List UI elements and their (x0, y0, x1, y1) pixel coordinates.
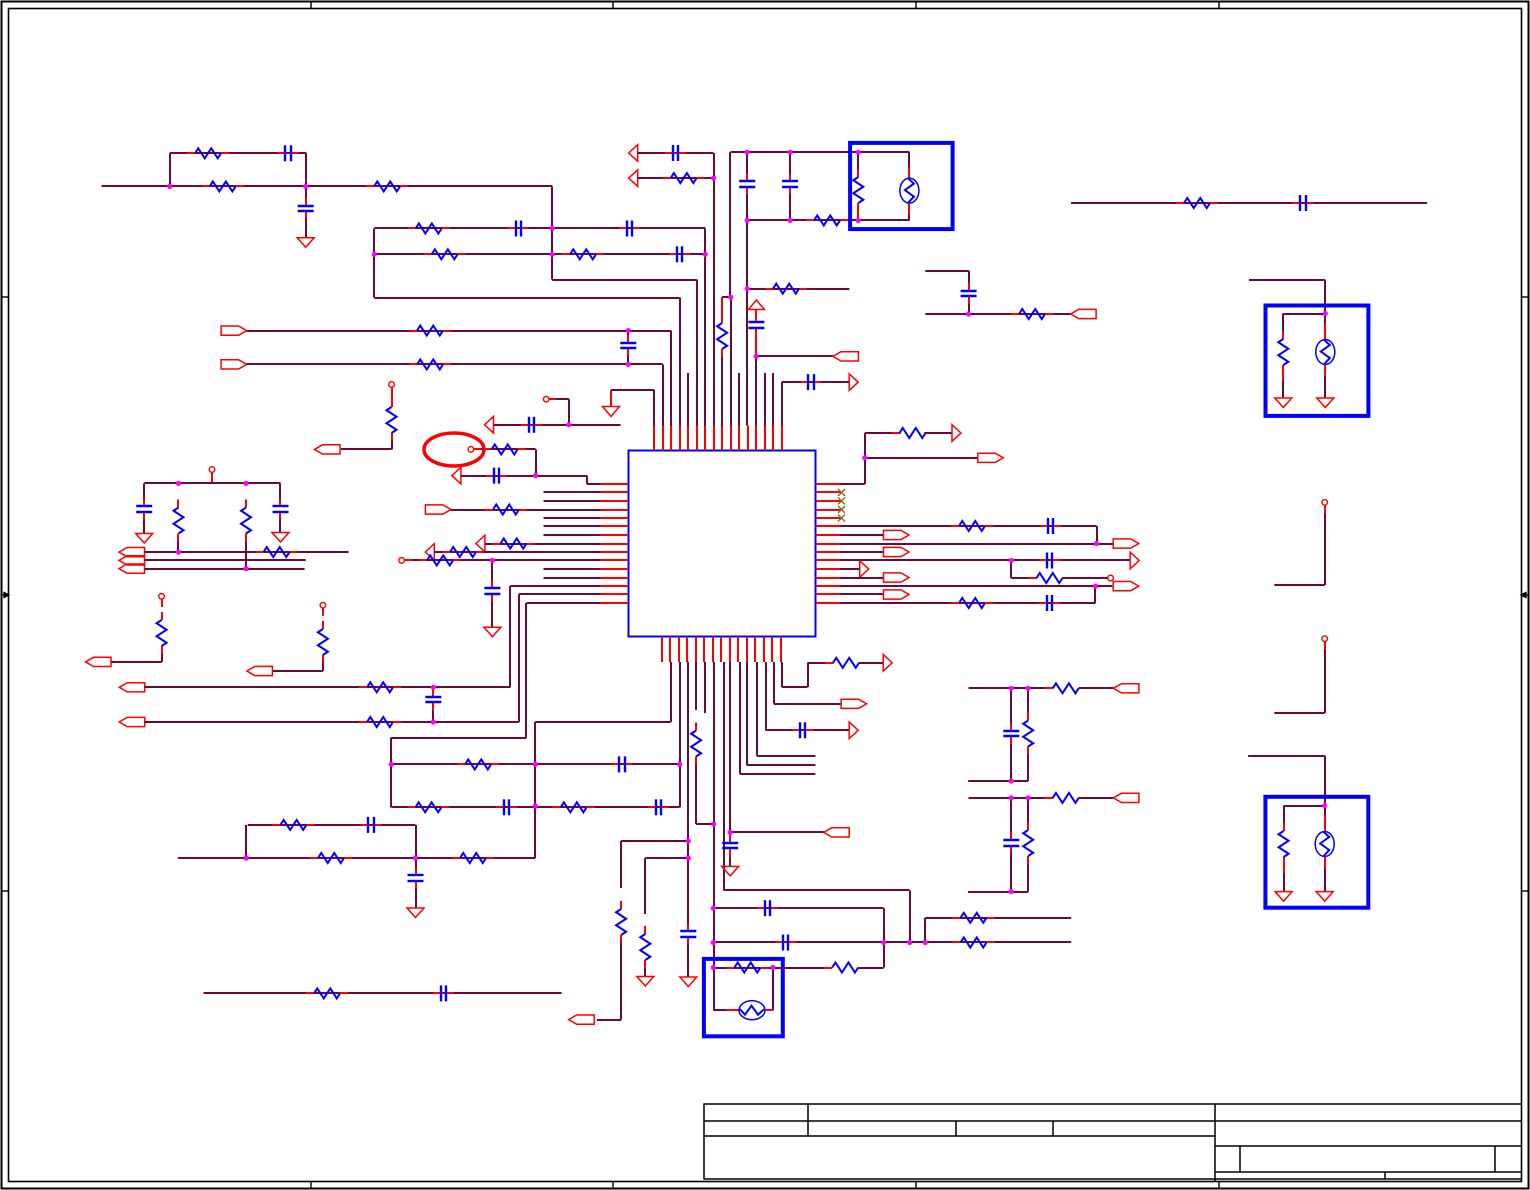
port PORT6 (119, 548, 145, 557)
wire net4 pin2 (662, 364, 664, 425)
wire stub pin15 (772, 373, 774, 426)
wire net53 out (773, 967, 832, 969)
wire net69 rv2 (1027, 755, 1029, 782)
wire net1 main b (170, 185, 552, 187)
pin U1 bottom (746, 637, 748, 663)
resistor R49 (1279, 823, 1289, 865)
capacitor C3 (508, 221, 529, 237)
wire net8 cap1a (746, 152, 748, 173)
wire net32 a (145, 721, 434, 723)
resistor R27 (318, 621, 328, 663)
capacitor C35 (1003, 833, 1019, 854)
wire net34 pinB3 (679, 662, 681, 764)
port PORT23 (1113, 684, 1139, 693)
pin stub (1324, 323, 1326, 340)
wire net13 line314 (925, 313, 1070, 315)
ground GND3 (1317, 398, 1334, 408)
junction (788, 150, 793, 155)
pin U1 bottom (729, 637, 731, 663)
wire net22 row13 (510, 585, 600, 587)
pin stub (1282, 373, 1284, 381)
crystal box XB2 (1266, 306, 1369, 416)
wire net33 v535 (534, 722, 536, 858)
wire net42 v909 (909, 891, 911, 943)
resistor R34 (310, 853, 352, 863)
pin stub (610, 390, 612, 407)
pin U1 right (816, 500, 841, 502)
capacitor C7 (665, 145, 686, 161)
wire net53 v883b (883, 943, 885, 968)
wire net16 pinL1 (587, 483, 601, 485)
wire net52 line917 (925, 917, 1071, 919)
resistor R29 (359, 717, 401, 727)
resistor R46 (951, 521, 993, 531)
wire net60 resline (1011, 577, 1037, 579)
node circle N9 (389, 382, 395, 388)
wire net56 (841, 525, 1097, 527)
junction (176, 481, 181, 486)
border zone tick left (2, 296, 9, 298)
port PORT18 (1113, 539, 1139, 548)
resistor R13 (853, 169, 863, 211)
wire net40 v696a (695, 662, 697, 710)
pin U1 top (772, 426, 774, 451)
junction (372, 252, 377, 257)
wire net33 h (535, 721, 670, 723)
pin U1 top (747, 426, 749, 451)
pin U1 right (816, 602, 841, 604)
no-connect NC (838, 498, 845, 505)
wire net27 line2 (145, 559, 306, 561)
ground GND7 (407, 908, 424, 918)
wire net55 h (841, 483, 865, 485)
port PORT13 (569, 1015, 595, 1024)
wire net23 row14 (519, 593, 601, 595)
wire net24 line737 (391, 737, 526, 739)
wire net9 line220 (747, 219, 858, 221)
wire net28 line3 (145, 568, 305, 570)
wire net37 porth (597, 1019, 621, 1021)
junction (745, 218, 750, 223)
wire net36 capstub (415, 858, 417, 870)
capacitor C27 (792, 722, 813, 738)
resistor R18 (484, 444, 526, 454)
wire net8 hangL (722, 296, 731, 298)
junction (550, 226, 555, 231)
junction (754, 354, 759, 359)
capacitor C23 (361, 817, 382, 833)
wire net18 (451, 509, 601, 511)
wire xb2 stem2 (1324, 314, 1326, 324)
resistor R19 (485, 505, 527, 515)
pin stub (1324, 365, 1326, 377)
wire net68 gstem2 (1324, 882, 1326, 892)
wire xb3 stem1 (1283, 806, 1285, 823)
resistor R17 (387, 399, 397, 441)
wire net68 h (1248, 755, 1325, 757)
wire net49 v782 (781, 662, 783, 687)
port PORT16 (978, 453, 1004, 462)
wire net38 v645 (644, 858, 646, 914)
wire net68 gstem1 (1283, 882, 1285, 892)
wire net24 row15 (527, 602, 601, 604)
resistor R24 (241, 500, 251, 542)
wire net17 line425 b (569, 424, 621, 426)
wire net25 c1b (143, 520, 145, 534)
junction (389, 762, 394, 767)
pin stub (404, 559, 413, 561)
pin U1 top (721, 426, 723, 451)
crystal box XB3 (1265, 797, 1368, 908)
arrow port AIN5 (476, 535, 485, 552)
pin U1 bottom (763, 637, 765, 663)
arrow port AOUT2 (849, 722, 858, 739)
wire net70 line891 (968, 891, 1028, 893)
port PORT2 (221, 360, 247, 369)
border zone tick top (915, 2, 917, 9)
wire net2 line254 a (374, 253, 552, 255)
capacitor C9 (782, 174, 798, 195)
wire net1 top (170, 152, 306, 154)
wire net56 v (1096, 526, 1098, 544)
arrow port AOUT5 (1130, 552, 1139, 569)
wire net47 h765 (766, 729, 850, 731)
junction (770, 965, 775, 970)
pin stub (211, 472, 213, 483)
wire net36 gndstem (415, 889, 417, 909)
wire net45 h746 (747, 764, 816, 766)
wire net2 left-vert (373, 229, 375, 298)
wire net62 (841, 577, 884, 579)
resistor R30 (457, 759, 499, 769)
wire net8 line152 (730, 151, 909, 153)
wire net17 h (556, 398, 569, 400)
capacitor C12 (961, 283, 977, 304)
wire net13 capstub2 (968, 304, 970, 314)
ground GND5 (136, 534, 153, 544)
wire net12 horiz (782, 381, 850, 383)
power flag PWRDN1 (603, 407, 620, 417)
junction (711, 940, 716, 945)
junction (303, 184, 308, 189)
junction (1093, 584, 1098, 589)
wire net30 v (322, 663, 324, 671)
wire net36 v415 (415, 825, 417, 858)
wire net61 (841, 568, 860, 570)
ground GND8 (637, 977, 654, 987)
capacitor C28 (757, 900, 778, 916)
pin U1 bottom (669, 637, 671, 663)
red ellipse annotation (424, 433, 484, 466)
port PORT5 (425, 505, 451, 514)
wire net69 h2 (1079, 687, 1114, 689)
pin stub (765, 1009, 773, 1011)
wire net69 capv2 (1010, 744, 1012, 781)
wire net1 main a (102, 185, 170, 187)
capacitor C25 (680, 924, 696, 945)
wire net53 int-top (713, 967, 773, 969)
wire net2 pin4 (679, 298, 681, 426)
pin U1 left (601, 525, 629, 527)
border center arrow left (2, 592, 10, 597)
wire net55 res-h (865, 432, 901, 434)
wire net60 (841, 559, 1131, 561)
crystal Y1 (900, 178, 919, 203)
junction (711, 965, 716, 970)
pin U1 left (601, 509, 629, 511)
pin U1 top (781, 426, 783, 451)
capacitor C20 (612, 756, 633, 772)
port PORT12 (119, 717, 145, 726)
wire net19 (485, 543, 601, 545)
wire stub pin11 (738, 373, 740, 426)
wire net33 pinB2 (670, 662, 672, 722)
wire net2 line228 a (374, 227, 552, 229)
capacitor C8 (739, 174, 755, 195)
resistor R25 (256, 547, 298, 557)
wire net52 v925 (924, 918, 926, 943)
pin stub (908, 203, 910, 214)
pin stub (549, 398, 556, 400)
pin U1 bottom (771, 637, 773, 663)
crystal box XB1 (850, 143, 953, 229)
resistor R22 (419, 555, 461, 565)
wire xb2 stem1 (1282, 314, 1284, 332)
ground GND6 (272, 533, 289, 543)
wire net54 line993 (204, 992, 562, 994)
wire net40 v696b (695, 765, 697, 825)
wire net49 h1 (782, 686, 808, 688)
junction (490, 558, 495, 563)
wire stub pin14 (764, 373, 766, 426)
wire net15 top (1249, 279, 1325, 281)
wire net44 v739 (739, 662, 741, 774)
pin U1 top (696, 426, 698, 451)
capacitor C34 (1003, 723, 1019, 744)
capacitor C2 (298, 198, 314, 219)
wire net34 capjoin1 (627, 331, 629, 335)
wire net50 line908 (713, 907, 883, 909)
junction (176, 550, 181, 555)
wire net67 h (1274, 712, 1324, 714)
pin stub (1283, 865, 1285, 873)
wire net1 gndstub (305, 219, 307, 238)
pin U1 top (670, 426, 672, 451)
pin stub (755, 310, 757, 315)
wire net53 int-r (772, 968, 774, 1011)
wire net59 (841, 551, 884, 553)
wire net1 capstub (305, 186, 307, 198)
border zone tick right (1522, 890, 1529, 892)
wire net21 b (492, 559, 600, 561)
node circle N2 (543, 396, 549, 402)
wire net4 line364 b (628, 363, 662, 365)
wire net49 v2 (807, 663, 809, 687)
arrow port AOUT3 (883, 655, 892, 672)
crystal Y2 (1316, 340, 1335, 365)
wire net20 (434, 551, 600, 553)
wire net55 v (864, 433, 866, 484)
wire net36 v246 (245, 825, 247, 858)
wire xb1 ystem1 (908, 152, 910, 166)
node circle N8 (1322, 636, 1328, 642)
pin stub (1324, 505, 1326, 514)
pin U1 top (730, 426, 732, 451)
wire net32 b (433, 721, 519, 723)
wire net43 v730 (729, 662, 731, 832)
junction (1026, 795, 1031, 800)
arrow port AIN4 (485, 417, 494, 434)
resistor R7 (409, 326, 451, 336)
capacitor C18 (273, 499, 289, 520)
wire net1 drop (305, 153, 307, 186)
capacitor C10 (748, 315, 764, 336)
junction (703, 252, 708, 257)
capacitor C16 (484, 581, 500, 602)
wire net3 line331 a (247, 330, 629, 332)
junction (431, 719, 436, 724)
junction (907, 940, 912, 945)
pin U1 right (816, 551, 841, 553)
wire net38 gndstem (644, 968, 646, 977)
wire net43 porth (730, 831, 824, 833)
wire net37 line841 (621, 840, 688, 842)
wire net69 capv1 (1010, 688, 1012, 723)
capacitor C19 (425, 689, 441, 710)
port PORT25 (315, 445, 341, 454)
resistor R1 (202, 181, 244, 191)
pin U1 top (662, 426, 664, 451)
pin U1 right (816, 483, 841, 485)
wire net37 v621 (620, 841, 622, 888)
arrow port AIN1 (629, 145, 638, 162)
wire stub pinB6 (704, 662, 706, 713)
wire net68 int-h (1284, 805, 1325, 807)
resistor R12 (765, 284, 807, 294)
title block (704, 1104, 1522, 1182)
wire net16 drop (535, 449, 537, 475)
junction (1009, 795, 1014, 800)
ground GND9 (680, 977, 697, 987)
wire net8 pin10 (730, 297, 732, 425)
border zone tick top (310, 2, 312, 9)
wire net47 v765 (765, 662, 767, 730)
junction (686, 838, 691, 843)
junction (243, 481, 248, 486)
wire net46 v757 (756, 662, 758, 756)
wire stub left (544, 525, 601, 527)
wire net16 line475 b (536, 475, 587, 477)
pin U1 left (601, 593, 629, 595)
port PORT3 (833, 352, 859, 361)
ground GND10 (722, 866, 739, 876)
wire net44 h739 (740, 773, 816, 775)
wire stub pin5 (687, 373, 689, 426)
pin U1 bottom (737, 637, 739, 663)
resistor R33 (272, 820, 314, 830)
border zone tick bottom (612, 1182, 614, 1189)
resistor R21 (442, 547, 484, 557)
resistor R40 (953, 938, 995, 948)
wire net11 portline (756, 355, 833, 357)
wire net48 v773 (773, 662, 775, 704)
wire net25 rail (144, 482, 280, 484)
wire net35 line807 (391, 806, 679, 808)
port PORT22 (884, 590, 910, 599)
wire net5 horiz (611, 389, 654, 391)
wire net8 vert730 (729, 152, 731, 297)
pin stub (322, 608, 324, 616)
wire net21 gndstem (491, 602, 493, 628)
pin U1 right (816, 568, 841, 570)
wire net16 drop2 (586, 476, 588, 484)
junction (686, 856, 691, 861)
wire net50 v883 (883, 908, 885, 942)
junction (1009, 778, 1014, 783)
pin U1 right (816, 593, 841, 595)
pin U1 right (816, 517, 841, 519)
junction (856, 150, 861, 155)
capacitor C17 (136, 499, 152, 520)
capacitor C32 (1039, 553, 1060, 569)
wire net66 h (1274, 584, 1324, 586)
capacitor C14 (486, 468, 507, 484)
wire net36 line824 (248, 824, 416, 826)
wire net1 bot (552, 279, 696, 281)
no-connect NC (838, 506, 845, 513)
wire net48 h773 (774, 703, 841, 705)
node circle N4 (159, 594, 165, 600)
wire net36 line858 (178, 857, 536, 859)
capacitor C6 (620, 335, 636, 356)
wire net12 rise (781, 382, 783, 425)
pin U1 left (601, 543, 629, 545)
junction (1322, 803, 1327, 808)
pin stub (857, 211, 859, 220)
wire net7 line178 (637, 177, 713, 179)
wire net9 box-int-bot (858, 219, 909, 221)
pin U1 left (601, 585, 629, 587)
port PORT10 (247, 666, 273, 675)
pin U1 top (687, 426, 689, 451)
wire stub left (544, 500, 601, 502)
border zone tick bottom (310, 1182, 312, 1189)
junction (881, 940, 886, 945)
wire net31 capa (432, 687, 434, 689)
junction (856, 218, 861, 223)
wire net25 c2a (279, 483, 281, 498)
capacitor C31 (1040, 518, 1061, 534)
wire net21 drop (491, 560, 493, 580)
ground GND12 (1316, 892, 1333, 902)
wire net25 c1a (143, 483, 145, 498)
resistor R37 (640, 926, 650, 968)
port PORT14 (824, 828, 850, 837)
resistor R45 (892, 428, 934, 438)
pin U1 right (816, 559, 841, 561)
resistor R20 (493, 539, 535, 549)
wire xb3 stem4 (1324, 868, 1326, 892)
wire net14 long (1071, 202, 1427, 204)
node circle PWR-N1 (209, 467, 215, 473)
wire net69 line688 (969, 687, 1053, 689)
wire xb3 stem3 (1283, 873, 1285, 892)
pin stub (1324, 815, 1326, 832)
port PORT21 (1113, 582, 1139, 591)
junction (1009, 558, 1014, 563)
junction (533, 803, 538, 808)
capacitor C22 (648, 799, 669, 815)
